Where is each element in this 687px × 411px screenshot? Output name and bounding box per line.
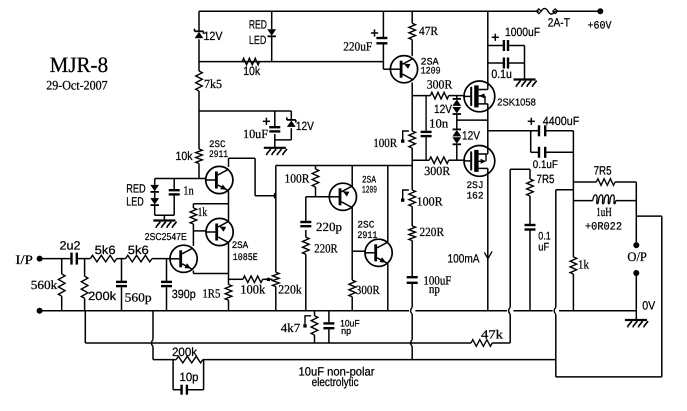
resistor 5k6 (first) xyxy=(90,243,116,262)
svg-text:200k: 200k xyxy=(88,289,117,303)
wire mosfet center column xyxy=(487,11,489,311)
wire 0.1uF row xyxy=(531,131,574,153)
wire 2SC2911b emitter down xyxy=(387,264,389,311)
svg-text:100mA: 100mA xyxy=(448,252,480,266)
wire line A (47k line) xyxy=(85,311,510,343)
wire zener chain column xyxy=(456,96,458,161)
wire O/P column xyxy=(635,182,637,311)
svg-text:100R: 100R xyxy=(285,172,311,186)
svg-text:200k: 200k xyxy=(172,345,198,359)
title MJR-8 xyxy=(46,52,108,92)
svg-text:7R5: 7R5 xyxy=(537,172,555,186)
capacitor 220uF xyxy=(343,29,387,53)
capacitor 0.1u xyxy=(491,58,512,82)
wire LED/1n bottom xyxy=(155,215,175,220)
resistor 220R (chain2) xyxy=(303,237,339,255)
ground (10uF node) xyxy=(264,148,287,155)
transistor Q6 2SC2911 xyxy=(357,221,392,267)
capacitor 1n xyxy=(169,184,195,198)
svg-text:1R5: 1R5 xyxy=(202,287,220,301)
svg-text:47k: 47k xyxy=(481,328,504,342)
wire 4k7/10uF hangers xyxy=(315,311,329,343)
resistor 1k (output) xyxy=(570,257,590,274)
wire 1k to 1085E base xyxy=(193,224,206,231)
wire left box rail xyxy=(276,165,412,167)
wire 2SA1209b emitter up xyxy=(351,166,353,187)
svg-text:electrolytic: electrolytic xyxy=(312,375,359,389)
mosfet Q7 2SK1058 xyxy=(464,81,536,113)
svg-text:560k: 560k xyxy=(31,278,58,292)
wire trimmer column upper xyxy=(411,96,413,131)
trimmer 100R (upper) xyxy=(373,131,415,150)
crossover chain/lineA xyxy=(411,340,413,347)
wire O/P branch xyxy=(636,216,662,377)
svg-text:220k: 220k xyxy=(278,283,302,297)
wire gate1 row (300R to 2SK1058) xyxy=(412,95,464,97)
wire 0V ground stub xyxy=(635,311,637,320)
svg-text:1209: 1209 xyxy=(421,67,441,78)
zener pair D6 D7 12V xyxy=(452,129,480,145)
svg-text:12V: 12V xyxy=(462,129,480,143)
zener pair D4 D5 12V xyxy=(434,99,461,116)
crossover chain/0V rail xyxy=(411,307,413,314)
wire 2SC2911a collector xyxy=(229,158,274,196)
wire zobel chain xyxy=(529,196,531,311)
wire zener/7k5/10k column xyxy=(198,11,200,178)
capacitor 10p xyxy=(180,370,199,395)
wire zener mid to source xyxy=(457,119,488,121)
wire zobel top xyxy=(510,169,530,179)
zener D3 12V xyxy=(287,117,314,133)
wire trimmer column mid xyxy=(411,148,413,190)
wire feedback stub xyxy=(556,190,574,360)
wire 10p loop xyxy=(173,360,204,390)
resistor 47k xyxy=(471,328,504,347)
svg-text:220R: 220R xyxy=(420,225,445,239)
node I/P terminals xyxy=(15,252,42,314)
wire 0V rail xyxy=(40,310,637,312)
crossover zobel-47k/0V rail xyxy=(509,307,511,314)
svg-text:np: np xyxy=(341,326,351,337)
wire 390p drop xyxy=(166,259,168,311)
resistor 100R (box) xyxy=(285,169,319,187)
svg-text:np: np xyxy=(429,282,440,296)
svg-text:LED: LED xyxy=(126,195,144,209)
ground (LED node) xyxy=(153,221,176,228)
wire 1000uF branch xyxy=(488,46,525,80)
svg-text:MJR-8: MJR-8 xyxy=(50,52,109,77)
resistor 560k xyxy=(31,274,65,296)
LED D8 RED xyxy=(126,181,159,195)
wire LED1 column xyxy=(271,11,273,61)
resistor 220R (chain) xyxy=(409,225,445,241)
svg-text:1k: 1k xyxy=(198,205,208,219)
resistor 47R xyxy=(409,23,439,39)
wire 200k drop xyxy=(84,259,86,311)
capacitor 560p xyxy=(116,282,152,305)
svg-text:2SA: 2SA xyxy=(232,241,249,252)
capacitor 100uF np xyxy=(407,273,452,296)
svg-text:10k: 10k xyxy=(176,149,194,163)
svg-text:LED: LED xyxy=(249,33,267,47)
svg-text:12V: 12V xyxy=(204,29,223,43)
wire base row 2SC2911a xyxy=(155,178,206,180)
svg-text:220uF: 220uF xyxy=(343,40,372,54)
svg-text:10p: 10p xyxy=(180,370,199,384)
wire +60V top rail xyxy=(199,10,600,12)
svg-text:0.1uF: 0.1uF xyxy=(533,159,558,171)
svg-text:2SJ: 2SJ xyxy=(467,181,484,192)
svg-text:1n: 1n xyxy=(183,184,194,198)
resistor 7R5 (zobel) xyxy=(527,172,555,196)
capacitor 0.1 uF (zobel) xyxy=(525,225,551,254)
svg-text:+0R022: +0R022 xyxy=(585,222,622,234)
svg-text:390p: 390p xyxy=(172,287,196,301)
node O/P terminals xyxy=(627,242,647,276)
wire 2SC2911b collector up xyxy=(387,166,389,243)
transistor Q2 2SC2911 xyxy=(206,140,233,194)
capacitor 2u2 xyxy=(60,238,81,264)
fuse F1 2A-T xyxy=(536,8,570,29)
svg-text:12V: 12V xyxy=(296,119,314,133)
svg-text:1000uF: 1000uF xyxy=(505,25,540,39)
wire 2SA1209b collector down xyxy=(351,207,353,280)
wire 47R / 2SA1209 emitter xyxy=(411,11,413,56)
wire output rail xyxy=(488,130,574,132)
wire 100R1 drop xyxy=(315,166,317,197)
wire 7R5 row xyxy=(573,181,636,183)
svg-text:220p: 220p xyxy=(316,220,342,234)
ground (0V) xyxy=(625,320,648,327)
LED D2 RED xyxy=(249,18,276,47)
svg-text:2SK1058: 2SK1058 xyxy=(497,97,536,108)
resistor 100k xyxy=(240,276,266,297)
capacitor 10n xyxy=(421,96,449,161)
resistor 300R (gate1) xyxy=(427,78,453,99)
wire 1n drop xyxy=(173,179,175,216)
wire base row 2SA1209b xyxy=(306,196,330,198)
trimmer 4k7 xyxy=(281,316,318,335)
resistor 200k (input) xyxy=(81,276,117,303)
wire long left vertical (220k column) xyxy=(275,166,277,311)
note 10uF non-polar xyxy=(299,365,375,390)
trimmer 100R (lower) xyxy=(401,190,443,209)
svg-text:4400uF: 4400uF xyxy=(543,114,580,128)
svg-text:162: 162 xyxy=(467,192,484,203)
resistor 220k xyxy=(273,272,303,296)
svg-text:300R: 300R xyxy=(427,78,453,92)
zener D1 12V xyxy=(195,29,223,43)
crossover lineB/lineA xyxy=(151,340,153,347)
svg-text:I/P: I/P xyxy=(15,252,33,267)
wire base row 2SC2911b xyxy=(352,250,365,252)
wire line B (200k line) xyxy=(153,311,556,360)
svg-text:4k7: 4k7 xyxy=(281,321,301,335)
wire 100k row xyxy=(229,278,273,280)
svg-text:5k6: 5k6 xyxy=(95,243,116,257)
wire input line xyxy=(40,258,170,260)
wire 300R3 bottom xyxy=(351,297,353,311)
crossover feedback/0V rail xyxy=(554,307,556,314)
current arrow 100mA xyxy=(448,251,493,265)
svg-text:220R: 220R xyxy=(314,242,338,256)
svg-text:+60V: +60V xyxy=(588,20,612,32)
svg-text:47R: 47R xyxy=(419,24,439,38)
resistor 7R5 (output) xyxy=(594,164,616,186)
transistor Q3 2SA1085E xyxy=(206,218,258,264)
svg-text:7R5: 7R5 xyxy=(594,164,612,178)
svg-text:100R: 100R xyxy=(373,136,398,150)
capacitor 390p xyxy=(161,282,196,301)
wire chain 100R/220R/100uF xyxy=(411,207,413,360)
wire 2547 emitter down xyxy=(193,271,228,274)
wire 1085E collector down xyxy=(228,243,230,274)
resistor 10k (rail) xyxy=(242,58,261,78)
svg-text:1uH: 1uH xyxy=(596,205,612,219)
wire 220uF column xyxy=(383,11,390,69)
svg-text:RED: RED xyxy=(249,18,267,32)
node +60V terminal xyxy=(588,8,612,32)
svg-text:1209: 1209 xyxy=(362,186,377,197)
wire 2SC2911a emitter to 1085E xyxy=(228,191,230,221)
svg-text:12V: 12V xyxy=(434,102,452,116)
wire zobel drop to 47k xyxy=(509,169,511,343)
resistor 5k6 (second) xyxy=(126,243,152,262)
svg-text:300R: 300R xyxy=(356,283,381,297)
svg-text:2A-T: 2A-T xyxy=(548,15,571,29)
svg-text:2SC: 2SC xyxy=(357,221,374,232)
svg-text:uF: uF xyxy=(538,242,549,254)
wire bottom feedback xyxy=(556,360,662,377)
junction collector to 220k column xyxy=(274,192,276,199)
svg-text:2911: 2911 xyxy=(357,231,377,242)
wire 220p/220R chain xyxy=(305,197,307,311)
svg-text:5k6: 5k6 xyxy=(128,243,149,257)
ground (0.1u node) xyxy=(514,80,537,87)
capacitor 220p xyxy=(300,220,342,234)
svg-text:7k5: 7k5 xyxy=(204,77,222,91)
svg-text:10n: 10n xyxy=(429,116,449,130)
capacitor 0.1uF xyxy=(533,147,558,171)
capacitor 1000uF xyxy=(492,25,540,51)
svg-text:2911: 2911 xyxy=(209,150,228,161)
svg-text:2SC2547E: 2SC2547E xyxy=(145,232,187,243)
svg-text:2u2: 2u2 xyxy=(60,238,81,252)
transistor Q1 2SC2547E xyxy=(145,232,197,273)
capacitor 4400uF xyxy=(528,114,580,136)
svg-text:0.1u: 0.1u xyxy=(491,67,512,81)
wire 560p drop xyxy=(121,259,123,311)
wire 1k row xyxy=(193,204,228,208)
LED D9 RED xyxy=(126,195,159,209)
node 100k tap xyxy=(267,278,270,281)
wire 1uH row xyxy=(573,200,636,202)
svg-text:0V: 0V xyxy=(642,299,655,313)
transistor Q5 2SA1209 xyxy=(329,176,377,211)
resistor 300R (gate2) xyxy=(424,157,451,178)
wire gate2 row (300R to 2SJ162) xyxy=(412,159,464,161)
svg-text:10k: 10k xyxy=(243,64,261,78)
resistor 200k (feedback) xyxy=(172,345,203,363)
svg-text:300R: 300R xyxy=(424,164,451,178)
svg-text:29-Oct-2007: 29-Oct-2007 xyxy=(46,77,108,92)
wire LED pair column xyxy=(154,179,156,216)
svg-text:100k: 100k xyxy=(240,283,266,297)
resistor 300R (emitter) xyxy=(349,280,380,297)
resistor 10k (base) xyxy=(176,149,203,164)
svg-text:1k: 1k xyxy=(578,258,590,272)
wire right output column xyxy=(572,131,574,311)
mosfet Q8 2SJ162 xyxy=(464,145,495,203)
svg-text:RED: RED xyxy=(126,181,146,195)
wire 1R5 drop xyxy=(228,274,230,311)
wire 2SA1209 collector to 300R node xyxy=(411,83,413,96)
svg-text:10uF: 10uF xyxy=(243,127,268,141)
wire second rail (zener row) xyxy=(199,61,383,63)
wire 10uF/12V top drop xyxy=(274,111,276,147)
wire third rail (bias row) xyxy=(199,110,291,112)
wire 12V zener2 branch xyxy=(275,111,292,140)
inductor 1uH +0R022 xyxy=(585,195,622,234)
label 0V xyxy=(642,299,655,313)
capacitor 10uF np xyxy=(323,319,359,338)
wire 0.1u branch xyxy=(488,62,525,64)
transistor Q4 2SA1209 xyxy=(390,56,440,83)
resistor 7k5 xyxy=(196,71,222,91)
capacitor 10uF xyxy=(243,118,280,141)
resistor 1R5 xyxy=(202,285,231,301)
svg-text:560p: 560p xyxy=(125,291,152,305)
wire 2547 collector up xyxy=(192,231,194,246)
svg-text:O/P: O/P xyxy=(627,249,647,264)
svg-text:100R: 100R xyxy=(417,195,444,209)
wire 560k drop xyxy=(61,259,63,311)
svg-text:1085E: 1085E xyxy=(233,253,258,264)
resistor 1k (1085E base) xyxy=(190,205,208,224)
